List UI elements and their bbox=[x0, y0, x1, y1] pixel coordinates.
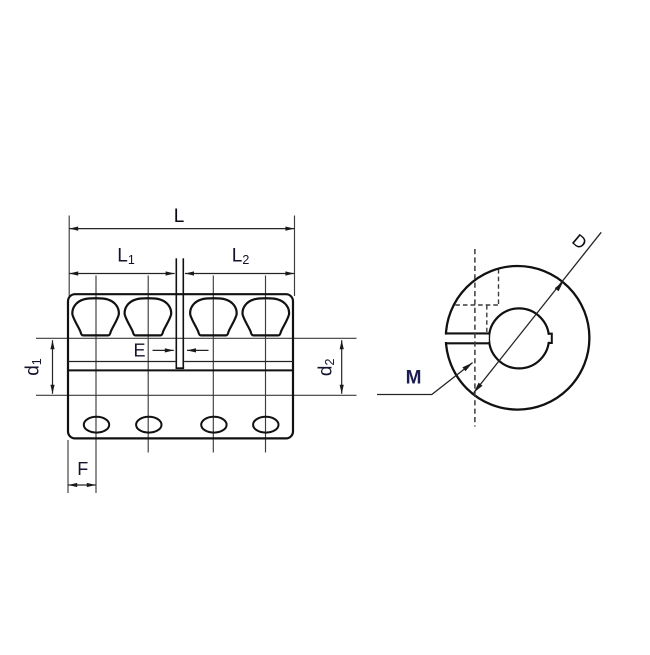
svg-text:E: E bbox=[133, 341, 145, 361]
svg-text:L: L bbox=[174, 206, 185, 227]
svg-text:F: F bbox=[77, 459, 88, 479]
svg-text:M: M bbox=[406, 368, 422, 389]
